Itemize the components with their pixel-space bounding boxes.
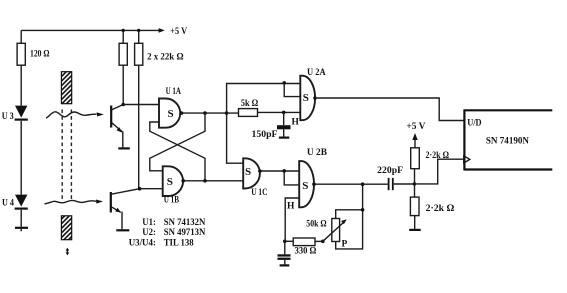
svg-text:U/D: U/D	[467, 118, 482, 128]
svg-text:H: H	[292, 118, 300, 128]
svg-text:U 4: U 4	[2, 198, 14, 208]
svg-text:S: S	[303, 92, 309, 104]
svg-text:50k Ω: 50k Ω	[306, 220, 327, 230]
svg-text:120 Ω: 120 Ω	[30, 49, 50, 59]
svg-text:SN 49713N: SN 49713N	[164, 228, 206, 238]
svg-text:150pF: 150pF	[252, 130, 278, 140]
svg-text:P: P	[342, 240, 348, 250]
svg-text:5k Ω: 5k Ω	[241, 99, 259, 109]
svg-text:U 1B: U 1B	[164, 195, 180, 205]
svg-text:H: H	[287, 202, 295, 212]
svg-text:SN 74190N: SN 74190N	[486, 136, 529, 146]
svg-text:S: S	[168, 108, 174, 120]
svg-text:U 1A: U 1A	[166, 87, 181, 97]
svg-text:U 1C: U 1C	[251, 188, 267, 198]
svg-text:S: S	[167, 176, 173, 188]
svg-text:S: S	[302, 180, 308, 192]
svg-text:U 3: U 3	[2, 112, 14, 122]
svg-text:U1:: U1:	[142, 218, 156, 228]
svg-text:2·2k Ω: 2·2k Ω	[426, 204, 455, 214]
svg-text:U3/U4:: U3/U4:	[129, 238, 156, 248]
svg-text:U 2B: U 2B	[307, 148, 328, 158]
svg-text:U2:: U2:	[142, 228, 156, 238]
svg-text:+5 V: +5 V	[406, 122, 425, 132]
svg-text:2 x 22k Ω: 2 x 22k Ω	[147, 52, 184, 62]
svg-text:U 2A: U 2A	[307, 68, 326, 78]
svg-text:220pF: 220pF	[377, 166, 403, 176]
svg-text:330 Ω: 330 Ω	[295, 247, 317, 257]
svg-text:TIL 138: TIL 138	[164, 239, 194, 249]
svg-text:+5 V: +5 V	[170, 27, 187, 37]
svg-text:S: S	[245, 166, 251, 178]
svg-text:SN 74132N: SN 74132N	[164, 218, 206, 228]
